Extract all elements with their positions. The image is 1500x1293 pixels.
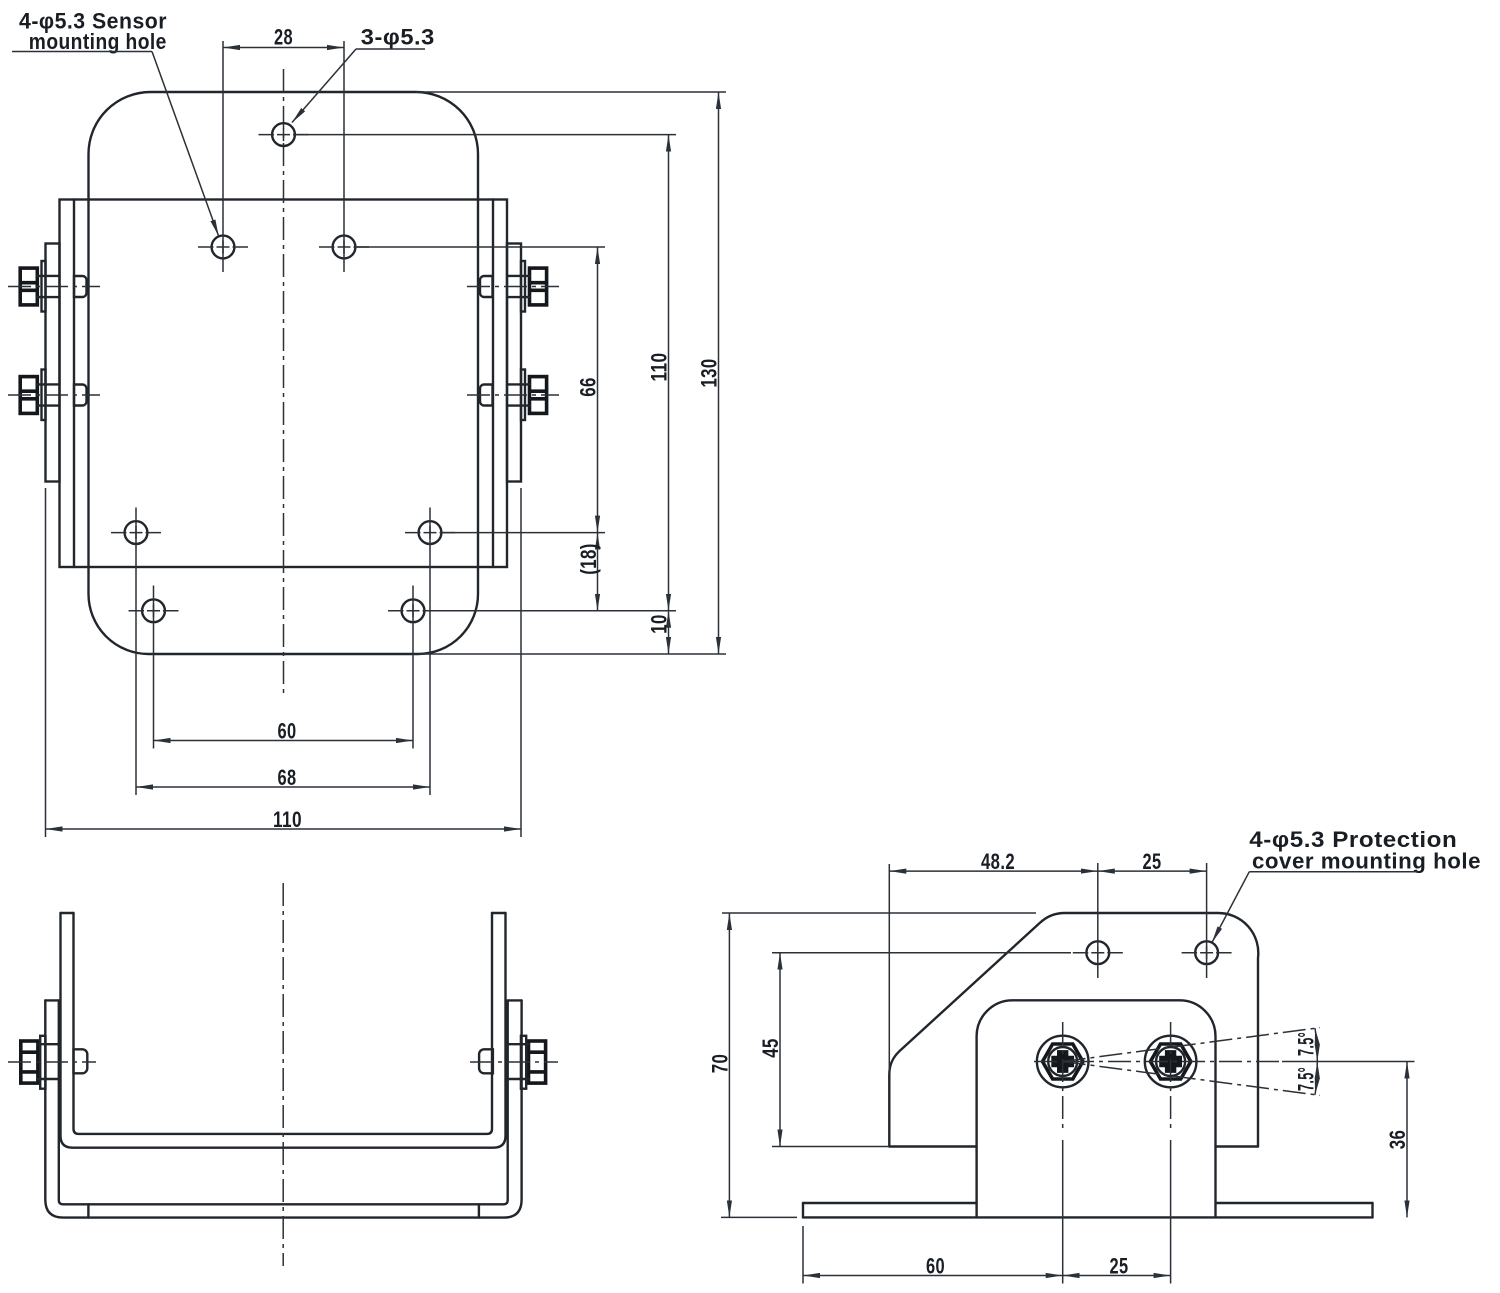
cover mounting hole right view3 — [1195, 941, 1218, 964]
svg-text:mounting hole: mounting hole — [29, 29, 167, 54]
cover floor edge mark right — [478, 1204, 480, 1217]
bolt stud end right — [480, 276, 493, 297]
dim 60 line — [154, 740, 414, 742]
VIEW 3: side view with mounting base — [721, 863, 1415, 1284]
label underline — [12, 51, 152, 53]
svg-text:48.2: 48.2 — [981, 849, 1015, 874]
U-bracket outer surface — [61, 913, 506, 1148]
protection cover outline (rounded rect) — [89, 92, 479, 654]
sensor base plate outer rect — [60, 200, 508, 568]
ray -7.5deg — [1063, 1062, 1320, 1096]
plate inner lip line right — [492, 200, 494, 568]
svg-text:130: 130 — [697, 359, 722, 388]
washer left view2 — [40, 1036, 45, 1089]
svg-text:70: 70 — [707, 1054, 732, 1074]
svg-text:10: 10 — [647, 614, 672, 634]
angular dim arc lower 7.5deg — [1315, 1062, 1317, 1095]
angular dim arc upper 7.5deg — [1315, 1028, 1317, 1061]
dim 130 line — [718, 92, 720, 654]
left flange plate — [46, 244, 60, 482]
bolt centerline left view2 — [8, 1061, 96, 1063]
VIEW 1: top view of sensor bracket with protection cover — [8, 41, 726, 837]
bolt vertical centerline left — [1062, 1022, 1064, 1130]
dim 28 line — [223, 47, 344, 49]
cover bottom edge right — [1216, 1145, 1259, 1147]
right foot end — [1371, 1203, 1373, 1217]
upright top cap right — [492, 912, 506, 914]
svg-text:68: 68 — [278, 765, 297, 790]
dim 25 bottom line — [1063, 1275, 1171, 1277]
ext 60 left — [802, 1226, 804, 1284]
dim 110 right line — [668, 135, 670, 611]
bolts horizontal centerline — [1034, 1061, 1282, 1063]
top hole 3-phi5.3 — [272, 123, 295, 146]
VIEW 3 dimensions — [707, 827, 1481, 1284]
dim 48.2 line — [889, 870, 1098, 872]
main centerline view2 — [282, 883, 284, 1266]
hex nut bottom-right — [530, 377, 547, 414]
main centerline view1 — [283, 69, 285, 695]
hex bolt head top-left — [20, 268, 37, 305]
cover inner surface — [59, 1000, 508, 1204]
bolt shank lines top-right — [507, 276, 530, 297]
svg-text:cover mounting hole: cover mounting hole — [1252, 849, 1481, 874]
leader to cover mounting hole — [1212, 872, 1249, 943]
dim 60 line view3 — [803, 1275, 1063, 1277]
washer bottom-right bolt — [521, 370, 525, 421]
sensor hole top-left — [212, 236, 235, 259]
base bottom line — [803, 1216, 1373, 1218]
cover hole bottom-left — [142, 599, 165, 622]
ray +7.5deg — [1063, 1028, 1320, 1062]
bolt shank lines bottom-right — [507, 384, 530, 405]
cover hole bottom-right — [402, 599, 425, 622]
dim 36 line — [1406, 1062, 1408, 1218]
hole ticks and extension lines view1 — [259, 134, 309, 136]
cover bottom edge left — [889, 1145, 976, 1147]
bolt stud end left — [74, 385, 87, 406]
hex nut top-right — [530, 268, 547, 305]
bracket side profile — [977, 1000, 1216, 1217]
label underline 3-phi5.3 — [356, 48, 425, 50]
svg-text:60: 60 — [926, 1254, 945, 1279]
washer top-left bolt — [42, 261, 46, 312]
left foot top — [803, 1202, 977, 1204]
washer bottom-left bolt — [42, 370, 46, 421]
leader to top hole — [292, 49, 356, 123]
protection cover side profile — [889, 913, 1258, 1147]
label underline view3 — [1249, 871, 1417, 873]
svg-text:45: 45 — [758, 1038, 783, 1058]
centerline ext for 36 dim — [1282, 1061, 1415, 1063]
bolt centerline left — [8, 286, 100, 288]
sensor hole bottom-left — [125, 521, 148, 544]
right flange plate — [507, 244, 521, 482]
svg-text:7.5°: 7.5° — [1294, 1067, 1319, 1091]
dim 70 line — [728, 913, 730, 1217]
bolt shank lines right view2 — [508, 1044, 529, 1079]
right foot top — [1216, 1202, 1373, 1204]
svg-text:66: 66 — [576, 377, 601, 397]
svg-text:3-φ5.3: 3-φ5.3 — [361, 25, 435, 50]
phillips bolt right view3 — [1145, 1036, 1197, 1088]
svg-text:110: 110 — [273, 807, 302, 832]
VIEW 2: front view (U-bracket inside protection cover) — [8, 883, 558, 1266]
sensor hole top-right — [333, 236, 356, 259]
bolt vertical centerline right — [1170, 1022, 1172, 1130]
U-bracket inner surface — [74, 913, 493, 1134]
hex bolt head left view2 — [21, 1041, 38, 1083]
dim 68 line — [136, 786, 430, 788]
dim 25 top line — [1098, 870, 1207, 872]
stud right view2 — [479, 1049, 493, 1073]
bolt stud end right — [480, 385, 493, 406]
dim 45 line — [779, 953, 781, 1147]
dim (18) line — [597, 533, 599, 611]
bolt shank lines bottom-left — [37, 384, 59, 405]
svg-text:25: 25 — [1110, 1254, 1129, 1279]
phillips bolt left view3 — [1037, 1036, 1089, 1088]
bolt ext to bottom dims left — [1062, 1140, 1064, 1284]
svg-text:60: 60 — [278, 719, 297, 744]
bolt centerline right — [467, 394, 559, 396]
cover wall top cap left — [45, 999, 59, 1001]
svg-text:(18): (18) — [576, 543, 601, 575]
stud left view2 — [74, 1049, 88, 1073]
washer top-right bolt — [521, 261, 525, 312]
leader to sensor hole — [152, 52, 219, 237]
hole ticks and extension lines view3 — [1073, 952, 1123, 954]
hex bolt head right view2 — [529, 1041, 546, 1083]
cover mounting hole left view3 — [1086, 941, 1109, 964]
bolt shank lines top-left — [37, 276, 59, 297]
svg-text:110: 110 — [647, 353, 672, 382]
cover outer surface — [45, 1000, 521, 1217]
dim 110 bottom line — [46, 828, 522, 830]
hex bolt head bottom-left — [20, 377, 37, 414]
cover floor edge mark left — [87, 1204, 89, 1217]
svg-text:36: 36 — [1385, 1130, 1410, 1150]
svg-text:7.5°: 7.5° — [1294, 1032, 1319, 1056]
dim 66 line — [597, 247, 599, 533]
bolt centerline left — [8, 394, 100, 396]
cover wall top cap right — [508, 999, 522, 1001]
washer right view2 — [521, 1036, 526, 1089]
sensor hole bottom-right — [419, 521, 442, 544]
bolt stud end left — [74, 276, 87, 297]
upright top cap left — [61, 912, 74, 914]
svg-text:25: 25 — [1143, 849, 1162, 874]
svg-text:28: 28 — [274, 25, 293, 50]
bolt centerline right view2 — [470, 1061, 558, 1063]
bolt ext to bottom dims right — [1170, 1140, 1172, 1284]
dim 10 line — [668, 611, 670, 654]
VIEW 1 dimensions — [12, 9, 722, 833]
bolt shank lines left view2 — [38, 1044, 59, 1079]
left foot end — [802, 1203, 804, 1217]
bolt centerline right — [467, 286, 559, 288]
plate inner lip line left — [73, 200, 75, 568]
